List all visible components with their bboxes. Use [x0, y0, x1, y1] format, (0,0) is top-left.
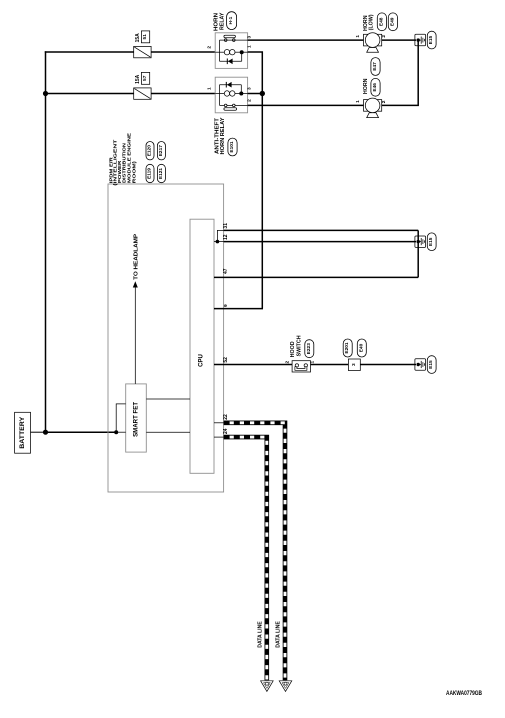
svg-text:1: 1	[355, 35, 361, 38]
svg-text:E201: E201	[344, 342, 350, 354]
svg-text:57: 57	[142, 75, 148, 81]
svg-text:52: 52	[223, 357, 229, 363]
wire anti-theft pin3 to rail B	[248, 93, 263, 95]
ground E15 mid	[415, 233, 436, 251]
wire cpu to pin 24	[214, 436, 224, 438]
svg-text:E217: E217	[158, 145, 164, 157]
wire battery to rail	[31, 431, 46, 433]
connector E40	[357, 339, 366, 357]
diode	[228, 59, 233, 65]
svg-text:HORN RELAY: HORN RELAY	[220, 117, 226, 154]
svg-text:12: 12	[223, 234, 229, 240]
svg-text:DATA LINE: DATA LINE	[275, 621, 281, 648]
svg-text:BATTERY: BATTERY	[20, 417, 26, 449]
svg-text:1: 1	[247, 45, 253, 48]
wire left power rail	[45, 51, 47, 432]
svg-text:2: 2	[247, 99, 253, 102]
contact bar	[224, 35, 236, 37]
wire pin 31 to ground riser	[224, 229, 419, 231]
diode rail	[220, 84, 242, 86]
wire connector 3 to ground	[360, 364, 416, 366]
svg-text:3: 3	[247, 35, 253, 38]
wire pin 47 to ground riser	[214, 276, 418, 278]
wire cpu to pin 22	[214, 422, 224, 424]
ground E15 top	[415, 31, 436, 49]
svg-text:2: 2	[381, 35, 387, 38]
svg-text:HORN: HORN	[363, 78, 369, 94]
left vertical	[219, 40, 221, 61]
node coil out	[240, 50, 244, 54]
node rail B junction	[260, 91, 265, 96]
horn low	[355, 13, 397, 52]
wire relay pin3 to horn low	[248, 39, 364, 41]
connector E201	[343, 339, 352, 357]
wire to headlamp arrow	[133, 233, 140, 384]
wire smart fet to cpu lower	[146, 431, 190, 433]
wire battery tap to smart fet	[116, 431, 126, 433]
left vertical	[219, 85, 221, 106]
connector triangle left	[261, 681, 274, 692]
wire hood switch to connector 3	[311, 364, 349, 366]
svg-text:51: 51	[142, 34, 148, 40]
fuse number 51	[141, 31, 149, 43]
svg-text:E46: E46	[372, 83, 378, 92]
wire smart fet elbow	[116, 404, 126, 432]
wire branch elbow to pin 31	[217, 230, 223, 241]
wire horn low to ground	[382, 39, 416, 41]
svg-text:E47: E47	[372, 62, 378, 71]
contact points	[224, 104, 227, 107]
svg-text:31: 31	[223, 223, 229, 229]
node coil out	[239, 92, 243, 96]
svg-text:1: 1	[206, 87, 212, 90]
ground E15 bottom	[415, 356, 436, 374]
connector E223	[305, 340, 314, 358]
ground label E15	[427, 356, 436, 374]
svg-text:2: 2	[381, 100, 387, 103]
svg-text:E15: E15	[428, 360, 434, 369]
svg-text:H-1: H-1	[228, 16, 234, 24]
svg-text:MODULE ENGINE: MODULE ENGINE	[126, 132, 132, 183]
contact points	[224, 39, 227, 42]
IPDM E/R box	[108, 132, 224, 492]
svg-text:3: 3	[247, 87, 253, 90]
svg-text:15A: 15A	[135, 33, 141, 43]
wire fuse 51 to horn relay pin 2	[151, 51, 215, 53]
contact line pin2	[220, 104, 248, 106]
svg-text:E15: E15	[428, 237, 434, 246]
svg-text:RELAY: RELAY	[219, 12, 225, 30]
svg-text:24: 24	[223, 428, 229, 434]
node pin 31/12 branch	[216, 240, 220, 244]
svg-text:E40: E40	[358, 343, 364, 352]
wire rail B down to cpu pin 9	[261, 94, 263, 309]
connector E101	[228, 138, 237, 156]
wire data line pin 24	[224, 437, 267, 680]
connector E47	[371, 58, 380, 76]
svg-text:2: 2	[206, 46, 212, 49]
relay H-1 horn relay	[206, 12, 252, 69]
svg-text:AAKWA0779GB: AAKWA0779GB	[446, 690, 482, 697]
svg-text:E120: E120	[147, 145, 153, 157]
contact line pin3	[220, 39, 248, 41]
svg-text:DATA LINE: DATA LINE	[258, 621, 264, 648]
wire smart fet to cpu upper	[146, 398, 190, 400]
wire pin 52 to hood switch	[214, 364, 292, 366]
right vertical	[240, 85, 242, 94]
wire battery rail to smart fet	[46, 431, 117, 433]
wire ground riser mid	[417, 230, 419, 277]
svg-text:9: 9	[223, 304, 229, 307]
svg-text:2: 2	[284, 361, 290, 364]
svg-text:E101: E101	[229, 141, 235, 153]
wire pin 12 to ground	[224, 241, 416, 243]
coil	[215, 51, 224, 53]
svg-text:(LOW): (LOW)	[368, 14, 374, 30]
connector E49	[388, 13, 397, 31]
fuse 15A 57	[134, 72, 151, 99]
connector junction 3	[343, 339, 366, 371]
CPU U1	[190, 219, 214, 473]
connector E120	[146, 142, 154, 160]
fuse number 57	[141, 72, 149, 84]
svg-text:CPU: CPU	[199, 354, 205, 367]
wire horn to ground riser	[382, 40, 419, 105]
wire cpu to pin12 node	[214, 241, 217, 243]
svg-text:SWITCH: SWITCH	[296, 335, 302, 356]
node smart fet battery tap	[114, 430, 118, 434]
ground label E15	[427, 31, 436, 49]
svg-text:E15: E15	[428, 36, 434, 45]
connector E119	[146, 164, 154, 182]
svg-text:47: 47	[223, 268, 229, 274]
relay designator H-1	[227, 12, 237, 30]
right vertical	[241, 52, 243, 61]
svg-text:HOOD: HOOD	[290, 341, 296, 357]
svg-text:3: 3	[351, 363, 357, 366]
svg-text:ROOM): ROOM)	[132, 161, 138, 184]
wire row1 rail to fuse 51	[45, 51, 134, 53]
connector E48	[377, 13, 386, 31]
battery B1	[15, 412, 31, 453]
wire pin 9 to rail B	[214, 308, 263, 310]
svg-text:TO HEADLAMP: TO HEADLAMP	[134, 233, 140, 280]
contact bar	[224, 108, 237, 110]
wire branch to pin 12	[217, 241, 223, 243]
wire row2 rail to fuse 57	[46, 93, 134, 95]
fuse 15A 51	[134, 31, 151, 58]
connector triangle right	[279, 681, 292, 692]
node fuse 57 tap	[43, 91, 48, 96]
coil	[215, 93, 224, 95]
connector E121	[157, 164, 165, 182]
svg-text:22: 22	[223, 414, 229, 420]
anti-theft horn relay E101	[206, 77, 252, 156]
svg-text:SMART FET: SMART FET	[133, 402, 139, 437]
svg-text:E223: E223	[306, 343, 312, 355]
svg-text:1: 1	[310, 361, 316, 364]
wire fuse 57 to anti-theft relay pin 1	[151, 93, 215, 95]
svg-text:E121: E121	[158, 168, 164, 180]
horn	[355, 58, 387, 118]
wire data line pin 22	[224, 423, 285, 680]
diode	[227, 82, 232, 88]
svg-text:E49: E49	[389, 17, 395, 26]
svg-text:E48: E48	[378, 17, 384, 26]
svg-text:15A: 15A	[135, 74, 141, 84]
diode rail	[220, 60, 242, 62]
svg-text:1: 1	[355, 100, 361, 103]
wire anti-theft pin2 to horn	[248, 104, 364, 106]
smart fet Q1	[126, 384, 147, 452]
hood switch	[284, 335, 315, 372]
ground label E15	[427, 233, 436, 251]
wire relay pin1 to rail B	[248, 52, 263, 94]
node battery junction	[43, 430, 48, 435]
connector E46	[371, 78, 380, 96]
svg-text:E119: E119	[147, 168, 153, 179]
connector E217	[157, 142, 165, 160]
